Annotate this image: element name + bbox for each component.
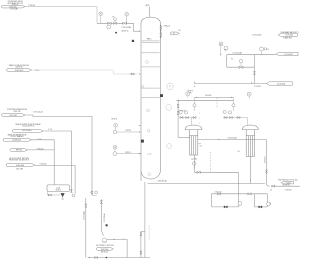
wire long bottoms header: [148, 183, 265, 185]
svg-text:MAKE-UP WATER FROM: MAKE-UP WATER FROM: [8, 133, 27, 136]
wire drop mid dashed: [216, 97, 218, 108]
svg-text:10-OV-2001: 10-OV-2001: [286, 35, 294, 37]
wire LC-1 link: [114, 127, 116, 130]
valve manifold row adsorber B circle a: [223, 110, 226, 113]
adsorber A neck: [189, 130, 191, 136]
instrument circle on right drop: [232, 104, 235, 107]
wire feed pipe to column: [97, 23, 140, 31]
svg-text:x: x: [199, 118, 200, 120]
valve manifold row adsorber B circle b: [228, 111, 231, 114]
valve manifold row adsorber A circle a: [179, 110, 182, 113]
svg-text:2"-PF-102-A1: 2"-PF-102-A1: [122, 26, 132, 29]
svg-text:2"-LS: 2"-LS: [48, 129, 52, 131]
valve manifold row B valve 1: [224, 117, 227, 119]
valve on regen drop b: [177, 112, 179, 115]
instrument FI-102: [125, 13, 129, 17]
wire IN-5 line to drum: [28, 149, 55, 151]
arrow feed into column: [139, 30, 140, 31]
svg-text:3"-OV-201-A1: 3"-OV-201-A1: [233, 52, 243, 55]
svg-text:NOTE 5: NOTE 5: [125, 152, 131, 154]
wire A bell drop: [191, 118, 193, 125]
valve end of IN-3 riser: [71, 190, 73, 193]
svg-text:PIC: PIC: [220, 44, 222, 46]
svg-text:10-FD-1001: 10-FD-1001: [9, 6, 17, 8]
valve on adsorber B product riser: [266, 170, 268, 173]
wire IN-7 line faint: [32, 70, 138, 74]
svg-text:WASH OIL FROM UNIT 400: WASH OIL FROM UNIT 400: [9, 64, 29, 67]
column internal circle d: [148, 173, 151, 176]
wire PI-101 stem: [100, 16, 102, 24]
loop B bottom: [255, 206, 268, 208]
instrument PI-101 top: [99, 12, 103, 16]
svg-text:CSO 2-RS: CSO 2-RS: [16, 168, 23, 170]
wire IN-2 line: [25, 115, 92, 195]
wire IN-3 line: [43, 131, 71, 193]
svg-text:10-OV-2003: 10-OV-2003: [277, 83, 285, 85]
column C-101 shell: [141, 17, 160, 181]
svg-text:3"-RG-210-A1: 3"-RG-210-A1: [228, 136, 238, 139]
wire LC-1 leader to column: [117, 131, 140, 133]
valve bypass upper: [140, 233, 142, 236]
valve on discharge A: [85, 204, 87, 207]
svg-text:SP: SP: [225, 50, 227, 52]
off-page connector IN-6 flag: [6, 164, 35, 167]
off-page connector OUT-4 flag: [281, 181, 294, 184]
instrument PIC-201 circle: [219, 42, 223, 46]
wire LC-2 link: [114, 149, 116, 152]
adsorber A bed stripes: [191, 136, 193, 155]
column manhole right dark: [160, 94, 163, 97]
svg-text:1"-WO: 1"-WO: [35, 70, 40, 72]
instrument cluster LC-1 circle upper: [114, 124, 118, 128]
off-page connector OUT-3 flag: [266, 82, 292, 85]
instrument cluster LC-2 circle lower: [113, 152, 117, 156]
adsorber A outlet arrow: [194, 168, 195, 169]
svg-text:TRAY 1: TRAY 1: [146, 37, 151, 40]
off-page connector IN-7 flag: [7, 69, 32, 72]
wire FI-102 stem: [126, 16, 128, 23]
tray 4 nozzle circle: [142, 85, 144, 87]
instrument cluster LC-2 circle upper: [113, 146, 117, 150]
off-page connector OUT-1 flag: [278, 33, 297, 36]
wire line to flag OUT-2: [227, 54, 276, 56]
column tray 5: [142, 97, 160, 99]
valve bypass lower: [140, 251, 142, 254]
svg-text:LG: LG: [114, 147, 116, 149]
pump P-101A base mark: [61, 198, 63, 200]
column tray 3: [142, 66, 160, 68]
svg-text:STRIPPING STEAM FROM: STRIPPING STEAM FROM: [7, 108, 27, 111]
bypass box left vertical: [226, 55, 228, 67]
flag small PSV dest: [170, 32, 179, 35]
off-page connector IN-5 flag: [10, 149, 28, 152]
svg-text:UNIT 200: UNIT 200: [14, 111, 21, 113]
wire B bell drop: [247, 118, 249, 125]
wire faint stub near bottoms: [148, 225, 150, 240]
wire product line out: [272, 185, 301, 187]
svg-text:FROM UNIT 300 (NOTE 7): FROM UNIT 300 (NOTE 7): [9, 160, 30, 162]
instrument loop A circle: [238, 202, 242, 206]
wire adsorber header lower: [177, 99, 234, 101]
svg-text:FLARE HDR: FLARE HDR: [283, 37, 292, 40]
svg-text:10-RS-1006: 10-RS-1006: [16, 165, 24, 167]
wire IN-4 line: [32, 139, 55, 141]
instrument circle on left drop: [193, 104, 196, 107]
wire IN-6 line: [35, 165, 75, 193]
adsorber B bed stripes: [247, 136, 249, 157]
valve on discharge B: [100, 201, 102, 204]
valve manifold row B valve 2: [230, 117, 233, 119]
svg-text:x: x: [199, 113, 200, 115]
svg-text:10-BT-2005: 10-BT-2005: [101, 249, 109, 251]
valve under drum left: [48, 194, 51, 196]
svg-text:3"-ST-102-A1: 3"-ST-102-A1: [33, 111, 43, 114]
adsorber A bell top: [185, 125, 202, 130]
wire pump discharge line B: [101, 199, 103, 235]
adsorber B bell top: [242, 125, 258, 130]
wire bypass branch with valves: [140, 231, 142, 257]
svg-text:3"-DP-204: 3"-DP-204: [285, 189, 292, 191]
bypass box right vertical: [253, 55, 255, 84]
control valve PV-201: [239, 66, 243, 69]
loop B left vertical: [254, 194, 256, 207]
instrument TI overhead circle: [167, 83, 173, 89]
svg-text:x: x: [199, 123, 200, 125]
svg-text:REFLUX: REFLUX: [16, 150, 22, 152]
wire overhead long line: [194, 83, 266, 85]
loop A bottom: [212, 206, 239, 208]
svg-text:PI: PI: [270, 204, 272, 206]
adsorber B neck: [245, 130, 247, 136]
relief valve PSV-1b: [160, 33, 162, 36]
valve manifold row adsorber A circle b: [184, 111, 187, 114]
svg-text:TI: TI: [169, 86, 171, 88]
valve on bottom header: [95, 257, 98, 259]
instrument circle low right: [167, 144, 172, 149]
svg-text:NOTE 4: NOTE 4: [112, 119, 118, 121]
svg-text:FC: FC: [231, 58, 234, 60]
svg-text:2"-RX-108-A1: 2"-RX-108-A1: [82, 211, 85, 220]
wire feed line from IN-1: [25, 7, 97, 24]
off-page connector IN-1 flag: [1, 5, 25, 8]
wire manifold row B: [224, 117, 247, 119]
wire drum outlet left: [47, 192, 49, 196]
valve on regen return b: [248, 193, 251, 195]
valve dark loop A: [224, 206, 227, 208]
wire pump P-102 discharge: [107, 239, 127, 257]
svg-text:FL: FL: [173, 33, 175, 35]
svg-text:PSV-101: PSV-101: [164, 25, 170, 27]
drum aux circle: [72, 194, 75, 197]
pump P-101B marks: [91, 191, 93, 194]
wire drop to left adsorber: [194, 97, 196, 111]
svg-text:NOTE 11: NOTE 11: [56, 189, 62, 191]
column tray 2: [142, 52, 160, 54]
loop B right vertical: [266, 194, 268, 207]
valve on regen drop a: [177, 105, 179, 108]
svg-text:A-101A: A-101A: [191, 157, 196, 160]
wire dashed drop: [210, 152, 212, 172]
valve manifold row A valve 1: [180, 117, 183, 119]
instrument loop B circle: [267, 202, 271, 206]
instrument above adsorber B: [247, 92, 251, 96]
valve on product line: [272, 185, 275, 187]
wire adsorber A outlet: [193, 155, 195, 172]
reflux drum D-101: [47, 185, 70, 192]
instrument circle below HV-1: [107, 25, 111, 29]
svg-text:3"-RS-106: 3"-RS-106: [40, 163, 47, 165]
instrument dark on line B: [106, 224, 108, 226]
svg-text:4Z: 4Z: [270, 190, 272, 192]
column internal circle a: [146, 61, 149, 64]
valve manifold row A valve 3: [193, 117, 196, 119]
relief valve line on dome: [160, 25, 162, 39]
svg-text:10-LS-1003-2: 10-LS-1003-2: [22, 130, 31, 132]
column overhead vent stub: [149, 7, 151, 18]
svg-text:10-ST-1002: 10-ST-1002: [9, 115, 17, 117]
instrument circle mid right: [166, 105, 172, 111]
column internal circle c: [147, 129, 150, 132]
off-page connector IN-4 flag: [3, 138, 31, 141]
svg-text:2"-PF-101: 2"-PF-101: [28, 5, 35, 7]
wire manifold row A: [180, 117, 197, 119]
svg-text:10-UW-1004: 10-UW-1004: [12, 139, 21, 141]
junction tick discharge: [123, 238, 125, 239]
off-page connector OUT-5 flag: [96, 248, 113, 251]
pump P-101A triangle: [61, 193, 65, 196]
svg-text:2"-RG-212: 2"-RG-212: [215, 191, 222, 193]
wire pump discharge line A: [85, 198, 87, 258]
bypass bottom line: [227, 66, 255, 68]
svg-text:10-WO-1007: 10-WO-1007: [15, 70, 24, 72]
column nozzle tick a: [139, 124, 141, 126]
svg-text:N1: N1: [238, 151, 240, 153]
svg-text:LEAN SOLVENT FROM STORAGE: LEAN SOLVENT FROM STORAGE: [15, 123, 40, 126]
valve HV-2 on feed pipe: [123, 22, 127, 24]
loop A right vertical: [238, 194, 240, 207]
instrument PT-201 circle: [224, 46, 228, 50]
wire adsorber A outlet header: [194, 171, 238, 173]
svg-text:2-OV-201-B2: 2-OV-201-B2: [252, 34, 261, 36]
column internal circle b: [147, 109, 150, 112]
svg-text:3"-PR-211: 3"-PR-211: [264, 156, 266, 163]
junction tick on overhead line: [250, 82, 252, 84]
column tray 4: [142, 87, 160, 89]
off-page connector IN-2 flag: [2, 114, 25, 117]
column manhole left dark: [141, 140, 144, 143]
loop A left vertical: [211, 194, 213, 207]
valve on wash oil line: [131, 73, 134, 75]
valve on A outlet header: [197, 171, 200, 173]
svg-text:TK-201 (NOTE 6): TK-201 (NOTE 6): [22, 126, 35, 128]
wire crossover line: [198, 139, 267, 141]
svg-text:(NOTE 12): (NOTE 12): [101, 251, 108, 253]
wire adsorber B outlet: [249, 156, 251, 183]
svg-text:(NOTE 2): (NOTE 2): [122, 30, 129, 32]
wire nozzle into adsorber A: [178, 136, 189, 138]
svg-text:TL-407: TL-407: [286, 183, 291, 185]
svg-text:1 - 1.5: 1 - 1.5: [147, 153, 152, 155]
adsorber A bottom instrument: [193, 162, 197, 166]
adsorber A right nozzle tick: [198, 143, 201, 145]
svg-text:3/4: 3/4: [178, 30, 180, 32]
valve HV-1 on feed pipe: [108, 22, 112, 24]
svg-text:4"-BT-301-A1: 4"-BT-301-A1: [158, 180, 167, 183]
wire drop from A header: [238, 172, 240, 194]
wire regen drop left of adsorber: [177, 100, 179, 137]
instrument above adsorber A: [186, 92, 190, 96]
column tray 1 chimney: [142, 40, 160, 42]
svg-text:2-RG-209: 2-RG-209: [205, 95, 212, 97]
svg-text:10-OV-2002: 10-OV-2002: [284, 54, 292, 56]
valve on regen return a: [217, 193, 220, 195]
wire adsorber B right line down: [266, 140, 268, 184]
adsorber B body: [246, 136, 254, 157]
valve on right vertical: [253, 72, 255, 75]
svg-text:2"-RX-105: 2"-RX-105: [37, 149, 44, 151]
wire bottoms bottom header: [88, 257, 151, 259]
svg-text:2"-OV-203: 2"-OV-203: [254, 86, 261, 88]
wire adsorber header upper: [195, 96, 234, 98]
svg-text:NOTE 5: NOTE 5: [126, 130, 132, 132]
valve manifold row B valve 3: [237, 117, 240, 119]
instrument dark box at feed nozzle: [132, 40, 134, 42]
pump P-102 circle: [102, 238, 106, 242]
instrument PV circle on line: [260, 47, 264, 51]
wire LC-2 leader to column: [117, 153, 140, 155]
svg-text:VENT: VENT: [145, 5, 149, 7]
off-page connector IN-3 flag: [12, 130, 43, 133]
svg-text:PV: PV: [267, 49, 269, 51]
junction dot bottom header: [106, 257, 108, 259]
svg-text:FV: FV: [113, 17, 115, 19]
control valve FV-101 with actuator: [114, 20, 116, 22]
off-page connector OUT-2 flag: [276, 52, 298, 55]
svg-text:BOTTOMS TO UNIT 500: BOTTOMS TO UNIT 500: [96, 245, 113, 247]
svg-text:D-101: D-101: [56, 187, 60, 189]
wire signal down: [220, 46, 222, 54]
svg-text:N2: N2: [200, 146, 202, 148]
relief valve PSV-1a: [160, 26, 162, 29]
adsorber A body: [190, 136, 198, 155]
wire drum feed riser: [53, 140, 55, 185]
wire column bottoms riser: [144, 182, 146, 258]
valve manifold row A valve 2: [186, 117, 189, 119]
svg-text:2"-BT-109-A1: 2"-BT-109-A1: [103, 213, 106, 222]
wire regeneration return line: [212, 193, 268, 195]
wire drop right: [233, 97, 235, 111]
column nozzle tick b: [139, 153, 141, 155]
valve dark loop B: [259, 206, 262, 208]
instrument cluster LC-1 circle lower: [113, 130, 117, 134]
